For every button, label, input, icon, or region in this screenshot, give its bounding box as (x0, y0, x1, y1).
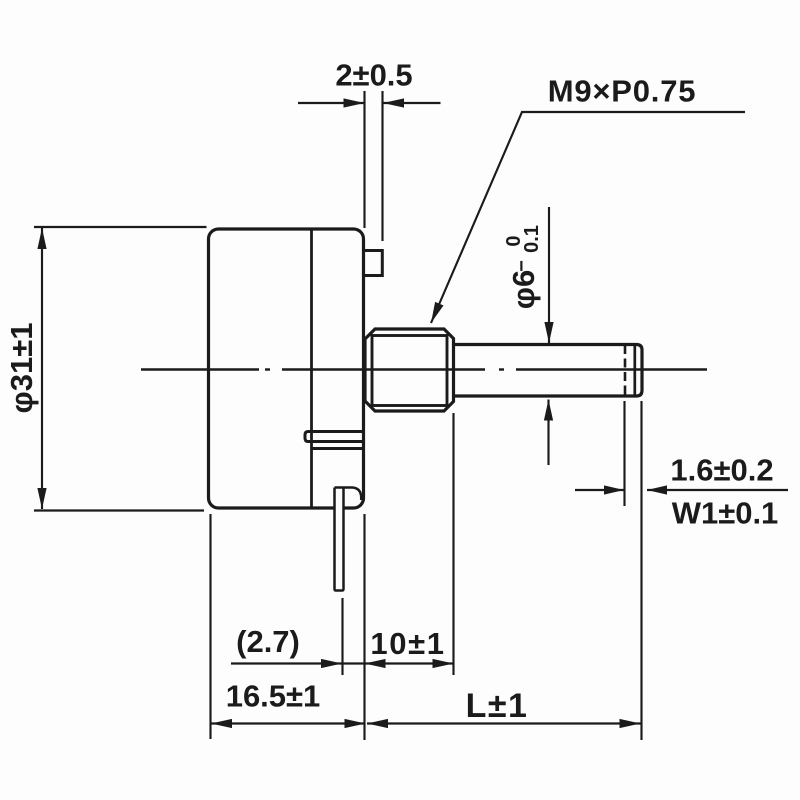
svg-text:1.6±0.2: 1.6±0.2 (670, 453, 773, 488)
svg-text:W1±0.1: W1±0.1 (672, 496, 779, 531)
svg-text:2±0.5: 2±0.5 (335, 58, 412, 93)
svg-text:L±1: L±1 (466, 687, 529, 725)
svg-text:(2.7): (2.7) (236, 624, 300, 659)
svg-text:M9×P0.75: M9×P0.75 (548, 74, 697, 109)
svg-text:φ6: φ6 (506, 270, 541, 309)
svg-text:0.1: 0.1 (521, 225, 543, 253)
svg-text:10±1: 10±1 (370, 626, 445, 661)
svg-text:16.5±1: 16.5±1 (226, 679, 321, 714)
svg-text:−: − (511, 260, 533, 272)
svg-text:φ31±1: φ31±1 (4, 323, 39, 414)
